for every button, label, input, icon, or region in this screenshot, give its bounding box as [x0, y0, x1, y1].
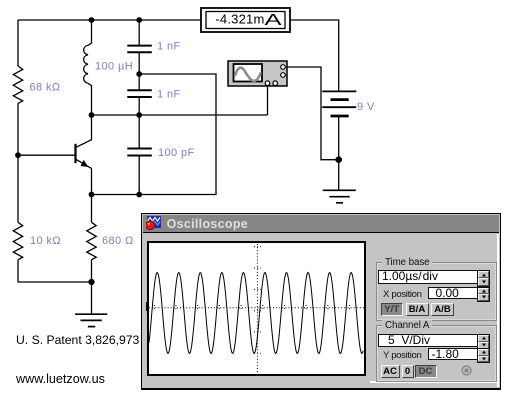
svg-text:100 pF: 100 pF	[158, 147, 195, 159]
svg-text:9 V: 9 V	[357, 101, 375, 113]
svg-text:A: A	[265, 12, 283, 29]
svg-text:680 Ω: 680 Ω	[102, 235, 134, 247]
svg-text:www.luetzow.us: www.luetzow.us	[15, 372, 105, 386]
svg-text:-4.321m: -4.321m	[215, 12, 264, 27]
svg-text:10 kΩ: 10 kΩ	[30, 235, 61, 247]
svg-text:1 nF: 1 nF	[157, 89, 181, 101]
svg-text:100 µH: 100 µH	[95, 61, 133, 73]
svg-text:1 nF: 1 nF	[157, 41, 181, 53]
svg-text:68 kΩ: 68 kΩ	[30, 82, 61, 94]
svg-text:U. S. Patent 3,826,973: U. S. Patent 3,826,973	[16, 333, 140, 347]
